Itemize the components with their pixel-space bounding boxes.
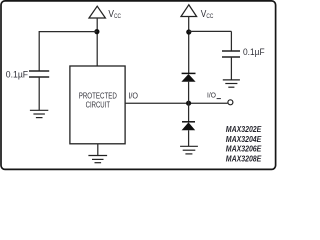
- wire VCC right rail down to diode D1: [188, 17, 190, 74]
- label VCC right: [201, 9, 214, 20]
- svg-text:CC: CC: [114, 13, 121, 20]
- wire VCC left to box top: [96, 18, 98, 66]
- node junction left VCC: [94, 29, 99, 34]
- node junction I/O: [186, 101, 191, 106]
- svg-text:I/O: I/O: [207, 90, 216, 99]
- wire junction to left cap branch: [39, 31, 97, 33]
- ground below box: [88, 156, 107, 163]
- label VCC left: [108, 9, 121, 20]
- svg-text:0.1µF: 0.1µF: [243, 47, 265, 57]
- wire right cap to ground: [230, 57, 232, 80]
- wire I/O line: [125, 102, 227, 104]
- svg-text:MAX3202E: MAX3202E: [226, 125, 262, 134]
- svg-text:MAX3206E: MAX3206E: [226, 145, 262, 154]
- wire left branch down to cap: [38, 31, 40, 71]
- wire left cap to ground: [38, 77, 40, 110]
- wire D1 to I/O node to D2: [188, 82, 190, 122]
- svg-text:I/O: I/O: [128, 90, 138, 100]
- wire junction to right cap branch: [189, 30, 232, 32]
- border frame: [1, 1, 276, 170]
- ground below D2: [180, 146, 198, 154]
- wire right branch down to cap: [230, 31, 232, 51]
- diode D2 to ground: [182, 122, 196, 130]
- protected circuit box U1: [70, 66, 125, 144]
- label I/O right terminal: [207, 90, 221, 99]
- svg-text:0.1µF: 0.1µF: [6, 69, 29, 79]
- svg-text:MAX3208E: MAX3208E: [226, 155, 262, 164]
- terminal circle I/O: [228, 100, 233, 105]
- node junction right VCC: [186, 29, 191, 34]
- label PROTECTED CIRCUIT: [79, 90, 117, 109]
- wire D2 to ground: [188, 130, 190, 146]
- svg-text:CIRCUIT: CIRCUIT: [86, 99, 110, 109]
- wire box bottom to ground: [97, 144, 99, 156]
- power symbol VCC right: [181, 5, 197, 17]
- diode D1 to VCC: [181, 73, 195, 81]
- capacitor C2 0.1uF right: [222, 51, 240, 57]
- ground right cap: [223, 80, 240, 87]
- svg-text:MAX3204E: MAX3204E: [226, 135, 262, 144]
- capacitor C1 0.1uF left: [29, 71, 49, 77]
- power symbol VCC left: [89, 6, 105, 18]
- svg-text:CC: CC: [206, 13, 213, 20]
- ground left: [30, 110, 48, 117]
